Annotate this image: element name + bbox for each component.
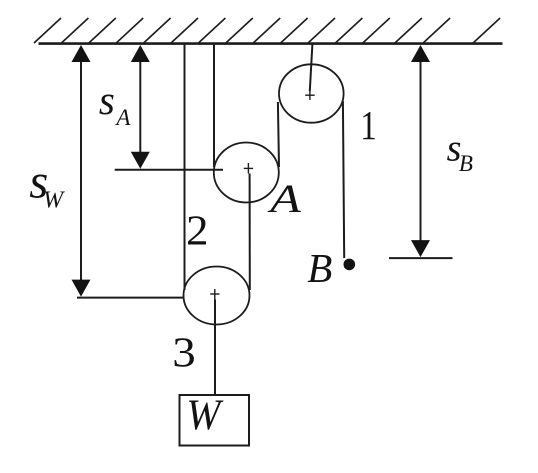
wire: rope from pulley A right side up to top pulley <box>278 102 279 167</box>
node: center mark of pulley A <box>244 163 253 174</box>
svg-text:3: 3 <box>172 330 196 376</box>
pulley (lower, carrying W) <box>184 267 250 325</box>
pulley A <box>214 143 279 203</box>
node: center mark of top pulley <box>305 90 315 100</box>
node: center mark of lower pulley <box>210 289 219 300</box>
svg-text:B: B <box>307 245 332 291</box>
svg-text:A: A <box>114 105 131 130</box>
wire: rope 3 from lower pulley down to weight W <box>214 300 216 396</box>
ceiling line <box>39 42 503 45</box>
svg-text:s: s <box>99 77 115 123</box>
dimension s_B: extension line at point B level <box>389 257 453 259</box>
dimension s_B: double arrow <box>420 58 422 244</box>
svg-text:1: 1 <box>360 102 377 148</box>
wire: rope from ceiling to lower pulley left side <box>184 44 186 290</box>
svg-text:W: W <box>43 188 65 214</box>
dimension s_A: extension line at pulley A level <box>115 169 223 171</box>
wire: rope from ceiling to pulley A left side <box>213 44 215 167</box>
node B (cord end dot) <box>344 259 356 271</box>
svg-text:2: 2 <box>186 208 209 254</box>
dimension s_W: extension line at lower pulley level <box>77 297 185 299</box>
dimension s_A: double arrow <box>139 58 141 156</box>
pulley (top, cord 1) <box>279 64 344 122</box>
wire: rope from pulley A axle down to lower pulley right side <box>249 174 251 291</box>
wire: hanger from ceiling to top pulley center <box>310 44 313 91</box>
svg-text:A: A <box>267 176 302 221</box>
dimension s_W: double arrow <box>80 58 82 284</box>
wire: rope 1 from top pulley down to point B <box>343 101 344 258</box>
weight block W <box>180 395 250 446</box>
ceiling hatching <box>34 18 500 43</box>
svg-text:W: W <box>186 392 224 439</box>
svg-text:B: B <box>459 151 473 176</box>
